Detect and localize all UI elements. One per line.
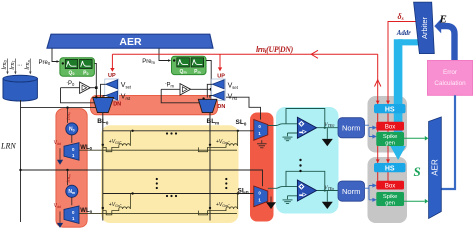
svg-text:Addr: Addr (396, 30, 411, 37)
Norm box 0 (338, 118, 365, 138)
integrator/comparator background (276, 107, 339, 214)
wire AER to Prem (159, 48, 168, 60)
svg-text:S: S (414, 164, 421, 179)
SL mux 0 (254, 120, 268, 141)
WL driver row 0 (lrn0, N0, mux) (54, 108, 79, 165)
UP arrow col1 (111, 54, 113, 68)
svg-text:lrni(UP|DN): lrni(UP|DN) (256, 45, 294, 55)
BL0 line (102, 113, 104, 221)
BLm line (209, 113, 211, 221)
BL driver band (91, 95, 218, 114)
crossbar array background (101, 125, 239, 223)
BL mux m (198, 99, 217, 112)
comparator 0 (268, 109, 339, 141)
wire AER to Pre0 (52, 48, 57, 61)
svg-text:Qm: Qm (180, 69, 187, 75)
LRN row line 1 (21, 107, 96, 109)
spike arrow 1 to AER (404, 137, 425, 139)
spike arrow 2 to AER (404, 200, 425, 202)
pipeline stack 1 (HS, Box, Spike gen) (374, 104, 406, 146)
memristor cell row0 colm (VGm) (198, 131, 237, 152)
svg-text:Prem: Prem (142, 59, 155, 65)
svg-text:Norm: Norm (342, 187, 360, 196)
left arrowhead on bus (311, 50, 318, 58)
EC wire to AER (442, 95, 456, 189)
pipeline stack 2 (HS, Box, Spike gen) (374, 163, 406, 206)
svg-text:HS: HS (385, 165, 395, 172)
handshake pipeline box 2 (368, 157, 408, 223)
svg-text:gen: gen (385, 200, 395, 206)
svg-text:lrn1: lrn1 (9, 60, 16, 69)
svg-text:SL0: SL0 (236, 119, 247, 126)
wire shaper0 output (94, 63, 96, 97)
svg-text:Calculation: Calculation (434, 80, 466, 87)
svg-text:Arbiter: Arbiter (420, 16, 429, 39)
svg-text:BLm: BLm (207, 118, 220, 125)
pulse shaper Q0 P0 (60, 58, 95, 77)
svg-text:VTE0: VTE0 (324, 122, 334, 128)
svg-text:BL0: BL0 (97, 118, 109, 125)
Addr bus (390, 39, 420, 160)
svg-text:Vset: Vset (228, 82, 239, 89)
SL driver background (250, 113, 274, 222)
WLn line (79, 212, 237, 214)
svg-text:Nm: Nm (68, 189, 75, 195)
svg-text:DN: DN (113, 102, 121, 108)
svg-text:WLn: WLn (80, 208, 92, 214)
svg-text:Spike: Spike (383, 134, 398, 140)
Normn output wires (364, 184, 376, 201)
Error Calculation box (428, 61, 473, 96)
input spike memory cylinder (3, 75, 37, 101)
UP arrow col2 (219, 54, 221, 67)
Norm box n (338, 181, 365, 201)
WL driver row n (lrnm, Nm, mux) (54, 170, 79, 228)
AER output encoder (429, 117, 442, 219)
svg-text:Box: Box (385, 125, 395, 131)
svg-text:DN: DN (217, 104, 225, 110)
lrn0 input arrow (6, 59, 31, 75)
red lrn feedback line (377, 54, 379, 181)
memristor cell rown col0 (VGn) (103, 194, 131, 215)
WL0 line (79, 149, 237, 151)
svg-text:Pm: Pm (194, 69, 201, 75)
WL driver background (56, 109, 87, 228)
svg-text:gen: gen (385, 140, 395, 146)
svg-text:VTEn: VTEn (324, 185, 334, 191)
SL mux n (254, 186, 268, 207)
svg-text:SLn: SLn (238, 187, 249, 194)
vertical dots crossbar right (225, 178, 227, 189)
Arbiter (414, 2, 435, 54)
svg-text:δs: δs (398, 12, 404, 22)
opamp Pm (161, 81, 212, 103)
vertical dots integrators (299, 159, 301, 172)
SL mux n ground (270, 197, 272, 203)
Vset/Vrst buffers col2 (207, 79, 225, 100)
pulse shaper Qm Pm (172, 56, 207, 75)
svg-text:-Pm: -Pm (165, 81, 175, 89)
Vset/Vrst buffers col1 (101, 79, 119, 100)
memristor cell row0 col0 (VG0) (103, 131, 131, 152)
svg-text:lrnm: lrnm (67, 174, 72, 183)
opamp P0 (61, 79, 98, 102)
svg-text:lrnn: lrnn (24, 60, 31, 69)
BL mux 0 (93, 98, 114, 113)
svg-text:...: ... (17, 62, 22, 68)
svg-text:WL0: WL0 (80, 145, 92, 151)
AER input encoder (47, 34, 213, 48)
comparator n (268, 171, 339, 203)
LRN vertical bus (20, 100, 22, 222)
svg-text:Vset: Vset (121, 82, 132, 89)
red learn bus (112, 53, 377, 55)
horizontal dots rown (166, 195, 177, 197)
svg-text:AER: AER (119, 36, 142, 48)
svg-text:Error: Error (443, 69, 457, 76)
SL0 line (103, 130, 254, 132)
svg-text:Pre0: Pre0 (39, 60, 51, 66)
svg-text:UP: UP (108, 73, 116, 79)
svg-text:E: E (439, 14, 447, 26)
svg-text:Box: Box (385, 184, 395, 190)
svg-text:-P0: -P0 (67, 79, 76, 87)
red delta_s line from arbiter (388, 22, 417, 182)
svg-text:Vdd: Vdd (54, 140, 61, 146)
E error arrow (441, 26, 455, 60)
svg-text:Q0: Q0 (69, 70, 75, 76)
SL mux 0 ground (257, 140, 267, 148)
vertical dots crossbar left (156, 178, 158, 189)
svg-text:AER: AER (431, 159, 440, 176)
svg-text:N0: N0 (69, 127, 75, 133)
wire to SL mux select (226, 97, 261, 119)
svg-text:Spike: Spike (383, 194, 398, 200)
SLn line (103, 193, 254, 195)
svg-text:HS: HS (385, 106, 395, 113)
horizontal dots row0 (166, 132, 177, 134)
Norm0 output wires (364, 125, 376, 138)
svg-text:lrn0: lrn0 (67, 112, 72, 120)
handshake pipeline box 1 (368, 96, 408, 153)
memristor cell rown colm (VGm) (198, 194, 237, 215)
svg-text:LRN: LRN (0, 142, 16, 151)
wire shaperm output (206, 61, 211, 100)
svg-text:Norm: Norm (342, 124, 360, 133)
LRN row line 2 (21, 170, 263, 186)
svg-text:P0: P0 (83, 70, 88, 76)
svg-text:Vdd: Vdd (54, 203, 61, 209)
svg-text:Vrst: Vrst (121, 93, 131, 100)
svg-text:lrn0: lrn0 (1, 60, 8, 69)
svg-text:UP: UP (217, 73, 225, 79)
